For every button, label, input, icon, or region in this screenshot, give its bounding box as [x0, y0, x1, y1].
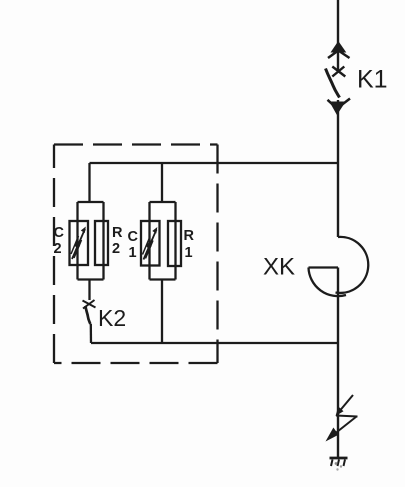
svg-text:R: R — [112, 225, 123, 241]
svg-text:1: 1 — [129, 245, 137, 261]
switch K2 — [83, 300, 96, 343]
arrester breakdown arrow — [326, 395, 358, 442]
wire (left branch parallel loop) — [78, 202, 104, 280]
wire (right branch stem, top) — [161, 163, 163, 202]
svg-text:C: C — [128, 229, 139, 245]
label K2 — [98, 305, 126, 331]
label R1 — [184, 228, 195, 261]
svg-text:2: 2 — [54, 241, 62, 257]
svg-text:K2: K2 — [98, 305, 126, 331]
svg-text:1: 1 — [185, 245, 193, 261]
resistor R2 — [95, 221, 108, 265]
svg-text:C: C — [54, 225, 65, 241]
resistor R1 — [168, 221, 181, 266]
label XK — [263, 254, 295, 281]
label K1 — [357, 66, 388, 94]
svg-text:K1: K1 — [357, 66, 388, 94]
connector XK (socket stub and arc) — [309, 268, 347, 297]
wire (bottom horizontal from box to main line) — [91, 342, 338, 344]
wire (main line, XK to ground) — [337, 268, 339, 458]
svg-text:R: R — [184, 228, 195, 244]
disconnector K1 — [326, 41, 351, 115]
label C1 — [128, 229, 139, 261]
wire (right branch parallel loop) — [150, 202, 176, 280]
wire (main line, top segment) — [337, 0, 339, 72]
box (dashed enclosure) — [54, 145, 218, 364]
wire (left branch stem, top) — [88, 163, 90, 202]
component C2 (varistor body with arrow) — [70, 221, 89, 265]
wire (left branch stem, bottom to K2) — [88, 280, 90, 301]
component C1 (varistor body with arrow) — [141, 221, 160, 266]
label C2 — [54, 225, 65, 257]
wire (main line, K1 to XK) — [337, 100, 339, 237]
connector XK (plug arc) — [336, 237, 369, 293]
label R2 — [112, 225, 123, 257]
wire (top horizontal from box to main line) — [90, 162, 339, 164]
ground — [330, 458, 348, 471]
svg-text:2: 2 — [112, 241, 120, 257]
wire (right branch stem, bottom) — [161, 280, 163, 344]
svg-text:XK: XK — [263, 254, 295, 281]
